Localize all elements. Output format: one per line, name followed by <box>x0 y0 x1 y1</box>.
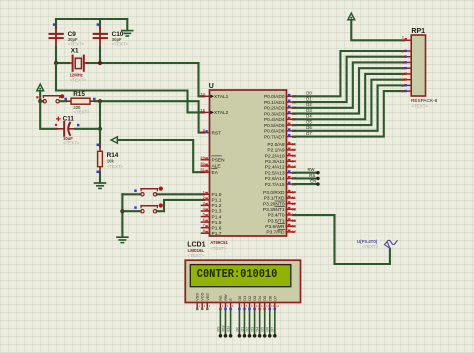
svg-text:D3: D3 <box>306 108 312 113</box>
svg-text:P2.0/A8: P2.0/A8 <box>267 142 284 148</box>
wire button to R15 <box>60 100 67 102</box>
svg-text:P1.3: P1.3 <box>212 209 222 215</box>
wire lcd D7 net <box>271 310 277 337</box>
pin 35 P0.4/AD4 (right) <box>264 117 297 124</box>
pin 9 RP1 stub <box>401 90 411 94</box>
wire P3.4/T0 to generator <box>294 215 390 264</box>
svg-text:D3: D3 <box>250 327 254 332</box>
pin 6 P1.5 (left) <box>202 217 222 226</box>
svg-text:P1.6: P1.6 <box>212 225 222 231</box>
svg-text:<TEXT>: <TEXT> <box>63 141 80 146</box>
svg-text:3: 3 <box>401 55 403 59</box>
pin 15 P3.5/T1 (right) <box>268 218 297 225</box>
svg-text:C11: C11 <box>63 116 75 123</box>
svg-text:D7: D7 <box>271 327 275 332</box>
svg-text:P0.6/AD6: P0.6/AD6 <box>264 129 285 135</box>
svg-text:P3.4/T0: P3.4/T0 <box>268 213 285 219</box>
pin 14 P3.4/T0 (right) <box>268 212 297 219</box>
svg-text:VEE: VEE <box>205 293 210 301</box>
svg-text:<TEXT>: <TEXT> <box>107 164 124 169</box>
svg-text:P3.3/INT1: P3.3/INT1 <box>263 207 285 213</box>
xtal2 arrow inside mcu <box>210 111 214 115</box>
pin 7 RP1 stub <box>401 78 411 82</box>
pin 8 P1.7 (left) <box>202 228 222 237</box>
lcd pin 5 RW <box>223 294 229 310</box>
svg-text:P2.3/A11: P2.3/A11 <box>265 159 285 165</box>
svg-text:D5: D5 <box>306 119 312 124</box>
junction VCC / button / C11 node <box>38 99 42 103</box>
svg-text:RP1: RP1 <box>411 28 425 35</box>
wire D0 net P0.0 to RP1 <box>294 51 405 96</box>
svg-text:P2.6/A14: P2.6/A14 <box>265 176 285 182</box>
lcd pin 8 D1 <box>242 296 248 310</box>
svg-text:10k: 10k <box>107 158 115 163</box>
lcd pin 10 D3 <box>252 296 259 310</box>
junction R15 / R14 column <box>98 99 102 103</box>
svg-text:D4: D4 <box>306 114 312 119</box>
wire lcd D2 net <box>245 310 251 337</box>
svg-text:P3.0/RXD: P3.0/RXD <box>263 190 285 196</box>
svg-text:1: 1 <box>402 36 404 40</box>
svg-text:D6: D6 <box>306 125 312 130</box>
svg-text:D7: D7 <box>306 131 312 136</box>
svg-text:D1: D1 <box>306 96 312 101</box>
wire D2 net P0.2 to RP1 <box>294 62 405 107</box>
wire D4 net P0.4 to RP1 <box>294 74 405 119</box>
svg-text:P1.7: P1.7 <box>212 231 222 237</box>
wire lcd D1 net <box>240 310 246 337</box>
svg-text:C0NTER:010010: C0NTER:010010 <box>197 267 277 281</box>
marker C11 right pin (blue) <box>77 124 80 127</box>
wire column down to R14 <box>99 129 101 147</box>
wire crystal row y=63 <box>56 62 69 64</box>
svg-text:P1.5: P1.5 <box>212 220 222 226</box>
svg-text:P2.7/A15: P2.7/A15 <box>265 182 285 188</box>
svg-text:P2.4/A12: P2.4/A12 <box>265 165 285 171</box>
wire C10 top stub <box>99 19 101 28</box>
ground top-right symbol <box>122 30 133 32</box>
generator U(P3.4T0) symbol <box>384 240 397 248</box>
svg-text:RW: RW <box>221 325 225 332</box>
pin 33 P0.6/AD6 (right) <box>264 128 297 135</box>
lcd pin 6 E <box>228 298 234 310</box>
button reset actuator dot <box>60 94 64 98</box>
svg-text:EA: EA <box>212 170 219 176</box>
svg-text:RST: RST <box>212 130 222 136</box>
wire lcd D4 net <box>256 310 262 337</box>
wire C9 top stub <box>55 19 57 28</box>
ground below R14 <box>95 182 106 184</box>
ground below buttons <box>117 236 128 238</box>
junction crystal-left / C9 node <box>54 61 58 65</box>
svg-text:RW: RW <box>308 167 316 172</box>
pin 4 RP1 stub <box>401 61 411 65</box>
junction buttons common <box>120 209 124 213</box>
svg-text:P0.0/AD0: P0.0/AD0 <box>264 94 285 100</box>
wire buttons common vertical <box>121 194 123 237</box>
lcd pin 13 D6 <box>267 296 274 310</box>
svg-text:<TEXT>: <TEXT> <box>68 41 85 46</box>
pin 6 RP1 stub <box>401 72 411 76</box>
pin 24 P2.3/A11 (right) <box>265 159 297 166</box>
pin 18 XTAL2 (left) <box>200 107 228 116</box>
wire EA net <box>118 140 204 172</box>
lcd pin 9 D2 <box>247 296 253 310</box>
marker button-reset right pin (blue) <box>64 98 67 101</box>
lcd pin 12 D5 <box>262 296 269 310</box>
wire button1 to P1.0 <box>157 193 204 195</box>
pin 5 RP1 stub <box>401 67 411 71</box>
svg-text:P1.0: P1.0 <box>212 192 222 198</box>
pin 2 RP1 stub <box>401 49 411 53</box>
wire C10 bottom stub <box>99 34 101 48</box>
pin 8 RP1 stub <box>401 84 411 88</box>
svg-text:12: 12 <box>292 201 297 206</box>
svg-text:<TEXT>: <TEXT> <box>73 110 90 115</box>
svg-text:<TEXT>: <TEXT> <box>412 103 429 108</box>
lcd pin 3 VEE <box>205 293 211 311</box>
svg-text:P0.3/AD3: P0.3/AD3 <box>264 111 285 117</box>
wire button2 to P1.1 <box>157 200 204 211</box>
svg-text:<TEXT>: <TEXT> <box>112 41 129 46</box>
pin 17 P3.7/RD (right) <box>266 229 296 236</box>
svg-text:P0.4/AD4: P0.4/AD4 <box>264 117 285 123</box>
wire D6 net P0.6 to RP1 <box>294 85 405 130</box>
lcd pin 1 VSS <box>195 293 201 311</box>
svg-text:18: 18 <box>200 107 205 112</box>
junction C11 right node <box>98 127 102 131</box>
svg-text:<TEXT>: <TEXT> <box>210 246 227 251</box>
pin 22 P2.1/A9 (right) <box>267 147 296 154</box>
svg-text:RESPACK-8: RESPACK-8 <box>411 98 438 103</box>
svg-text:13: 13 <box>271 304 275 308</box>
pin 21 P2.0/A8 (right) <box>267 141 296 148</box>
marker C11 left (red) <box>55 124 57 126</box>
svg-text:17: 17 <box>292 229 297 234</box>
lcd LCD1 body <box>185 260 300 302</box>
marker R15 right pin (blue) <box>93 98 96 101</box>
svg-text:D2: D2 <box>245 327 249 332</box>
svg-text:12: 12 <box>266 304 270 308</box>
pin 12 P3.2/INT0 (right) <box>263 201 297 208</box>
pin 25 P2.4/A12 (right) <box>265 164 297 171</box>
power terminal VCC (top-right) <box>348 13 355 20</box>
svg-text:P1.1: P1.1 <box>212 198 222 204</box>
resistor R14 (vertical) <box>98 146 103 173</box>
pin 31 EA (left) <box>200 167 218 176</box>
crystal X1 <box>68 56 88 71</box>
svg-text:10: 10 <box>256 304 260 308</box>
wire to button2 left <box>122 210 140 212</box>
marker button2 (P1.1) left (blue) <box>134 206 137 209</box>
svg-text:EN: EN <box>310 179 316 184</box>
wire lcd D3 net <box>250 310 256 337</box>
svg-text:21: 21 <box>292 141 297 146</box>
lcd pin 2 VDD <box>200 292 206 310</box>
pin 26 P2.5/A13 (right) <box>265 170 297 177</box>
wire RW net from P2 <box>294 167 320 174</box>
pin 30 ALE (left) <box>200 161 220 170</box>
power terminal VCC (left) <box>37 84 44 91</box>
svg-text:D1: D1 <box>240 327 244 332</box>
pin 5 P1.4 (left) <box>202 212 222 221</box>
svg-text:P2.5/A13: P2.5/A13 <box>265 170 285 176</box>
svg-text:19: 19 <box>200 91 205 96</box>
svg-text:29: 29 <box>200 155 205 160</box>
wire lcd RW net <box>221 310 227 337</box>
svg-text:P0.1/AD1: P0.1/AD1 <box>264 100 285 106</box>
wire RS net from P2 <box>294 173 320 180</box>
pin 10 P3.0/RXD (right) <box>263 190 297 197</box>
svg-text:X1: X1 <box>71 48 79 55</box>
ground top-right stem <box>126 19 128 30</box>
svg-text:P2.1/A9: P2.1/A9 <box>267 148 284 154</box>
pin 36 P0.3/AD3 (right) <box>264 111 297 118</box>
actuator dot button1 (P1.0) <box>159 187 163 191</box>
svg-text:P0.7/AD7: P0.7/AD7 <box>264 134 285 140</box>
svg-text:P3.7/RD: P3.7/RD <box>266 230 285 236</box>
pin 37 P0.2/AD2 (right) <box>264 105 297 112</box>
wire RST net horizontal <box>95 101 204 132</box>
lcd pin 11 D4 <box>257 295 264 310</box>
wire VCC-top rail y=19 <box>56 18 127 20</box>
svg-text:25: 25 <box>292 164 297 169</box>
wire column R15 to C11 row <box>99 101 101 129</box>
wire D7 net P0.7 to RP1 <box>294 91 405 136</box>
plus sign C11 <box>57 118 60 120</box>
wire VCC stem to reset row <box>39 91 41 101</box>
wire lcd D6 net <box>266 310 272 337</box>
svg-text:U: U <box>209 83 214 90</box>
svg-text:P0.5/AD5: P0.5/AD5 <box>264 123 285 129</box>
svg-text:30: 30 <box>200 161 205 166</box>
wire EN net from P2 <box>294 179 320 186</box>
pin 19 XTAL1 (left) <box>200 91 228 100</box>
button (reset, top-left) <box>43 96 60 103</box>
pin 38 P0.1/AD1 (right) <box>264 99 297 106</box>
svg-text:23: 23 <box>292 153 297 158</box>
wire D3 net P0.3 to RP1 <box>294 68 405 113</box>
pin 27 P2.6/A14 (right) <box>265 176 297 183</box>
svg-text:2: 2 <box>401 49 403 53</box>
pin 16 P3.6/WR (right) <box>265 223 297 230</box>
svg-text:P1.2: P1.2 <box>212 203 222 209</box>
svg-text:31: 31 <box>200 167 205 172</box>
pin 29 PSEN (left) <box>200 155 225 164</box>
marker R14 bottom pin (blue) <box>97 171 100 174</box>
mcu U AT89C51 body <box>210 90 287 236</box>
svg-text:P0.2/AD2: P0.2/AD2 <box>264 106 285 112</box>
svg-text:D7: D7 <box>272 296 277 301</box>
lcd pin 4 RS <box>218 295 224 310</box>
svg-text:PSEN: PSEN <box>212 158 226 164</box>
svg-text:5: 5 <box>401 67 403 71</box>
pin 39 P0.0/AD0 (right) <box>264 94 297 101</box>
svg-text:E: E <box>228 298 233 301</box>
svg-text:ALE: ALE <box>212 164 221 170</box>
svg-text:10: 10 <box>292 190 297 195</box>
svg-text:<TEXT>: <TEXT> <box>362 244 379 249</box>
svg-text:7: 7 <box>401 78 403 82</box>
svg-text:P2.2/A10: P2.2/A10 <box>265 153 285 159</box>
svg-text:9: 9 <box>401 90 403 94</box>
lcd pin 7 D0 <box>237 295 243 310</box>
svg-text:16: 16 <box>292 223 297 228</box>
svg-text:XTAL1: XTAL1 <box>214 94 229 100</box>
wire D1 net P0.1 to RP1 <box>294 57 405 102</box>
capacitor C10 <box>94 34 107 38</box>
svg-text:D0: D0 <box>235 327 239 332</box>
capacitor C9 <box>50 34 63 38</box>
svg-text:22: 22 <box>292 147 297 152</box>
svg-text:AT89C51: AT89C51 <box>210 240 228 245</box>
marker button-reset left (red) <box>36 96 38 98</box>
svg-text:13: 13 <box>292 206 297 211</box>
resistor-pack RP1 body (RESPACK-8) <box>411 35 425 96</box>
svg-text:R15: R15 <box>73 91 85 98</box>
wire to button SW-reset left terminal <box>40 100 43 102</box>
wire VCC node down to C11 row <box>40 101 56 129</box>
xtal1 arrow inside mcu <box>210 95 214 99</box>
svg-text:6: 6 <box>401 72 403 76</box>
marker C10 top pin (blue) <box>97 23 100 26</box>
pin 2 P1.1 (left) <box>202 195 222 204</box>
button button2 (P1.1) <box>141 206 158 213</box>
lcd screen <box>190 265 290 287</box>
svg-text:15: 15 <box>292 218 297 223</box>
svg-text:24: 24 <box>292 159 297 164</box>
button button1 (P1.0) <box>141 189 158 196</box>
pin 32 P0.7/AD7 (right) <box>264 134 297 141</box>
wire XTAL2 net staircase <box>56 63 204 112</box>
pin 3 P1.2 (left) <box>202 200 222 209</box>
svg-text:P1.4: P1.4 <box>212 214 222 220</box>
svg-text:RS: RS <box>216 326 220 332</box>
marker C9 top pin (blue) <box>53 23 56 26</box>
wire lcd D5 net <box>261 310 267 337</box>
pin 3 RP1 stub <box>401 55 411 59</box>
pin 1 P1.0 (left) <box>202 189 222 198</box>
pin 34 P0.5/AD5 (right) <box>264 122 297 129</box>
marker R14 top pin (blue) <box>97 144 100 147</box>
svg-text:8: 8 <box>401 84 403 88</box>
junction crystal-right / C10 node <box>98 61 102 65</box>
svg-text:<TEXT>: <TEXT> <box>70 77 87 82</box>
pin 9 RST (left) <box>202 128 222 137</box>
lcd pin 14 D7 <box>272 296 279 310</box>
svg-text:14: 14 <box>276 304 280 308</box>
wire to button1 left <box>122 193 140 195</box>
svg-text:EN: EN <box>227 326 231 331</box>
svg-text:D0: D0 <box>306 91 312 96</box>
svg-text:<TEXT>: <TEXT> <box>188 253 205 258</box>
pin 11 P3.1/TXD (right) <box>264 195 297 202</box>
svg-text:D5: D5 <box>261 327 265 332</box>
pin 4 P1.3 (left) <box>202 206 222 215</box>
pin 23 P2.2/A10 (right) <box>265 153 297 160</box>
wire R14 to ground <box>99 172 101 183</box>
pin 7 P1.6 (left) <box>202 223 222 232</box>
wire lcd D0 net <box>235 310 241 337</box>
wire lcd EN net <box>227 310 233 337</box>
svg-text:XTAL2: XTAL2 <box>214 110 229 116</box>
wire VCC to RP1 pin1 <box>351 20 404 40</box>
wire C11 right to column <box>75 128 100 130</box>
svg-text:D2: D2 <box>306 102 312 107</box>
EA net left arrow terminal <box>111 137 117 143</box>
svg-text:RS: RS <box>309 173 315 178</box>
capacitor C11 (electrolytic) <box>57 122 76 136</box>
wire C9 bottom stub <box>55 34 57 48</box>
svg-text:D4: D4 <box>256 327 260 332</box>
pin 1 RP1 stub <box>402 36 411 41</box>
pin 28 P2.7/A15 (right) <box>265 181 297 188</box>
svg-text:D6: D6 <box>266 327 270 332</box>
actuator dot button2 (P1.1) <box>159 203 163 207</box>
resistor R15 <box>66 98 96 104</box>
wire D5 net P0.5 to RP1 <box>294 80 405 125</box>
marker button1 (P1.0) left (blue) <box>134 189 137 192</box>
pin 13 P3.3/INT1 (right) <box>263 206 297 213</box>
svg-text:11: 11 <box>261 304 264 308</box>
wire lcd RS net <box>216 310 222 337</box>
wire XTAL1 net vertical <box>199 63 205 96</box>
